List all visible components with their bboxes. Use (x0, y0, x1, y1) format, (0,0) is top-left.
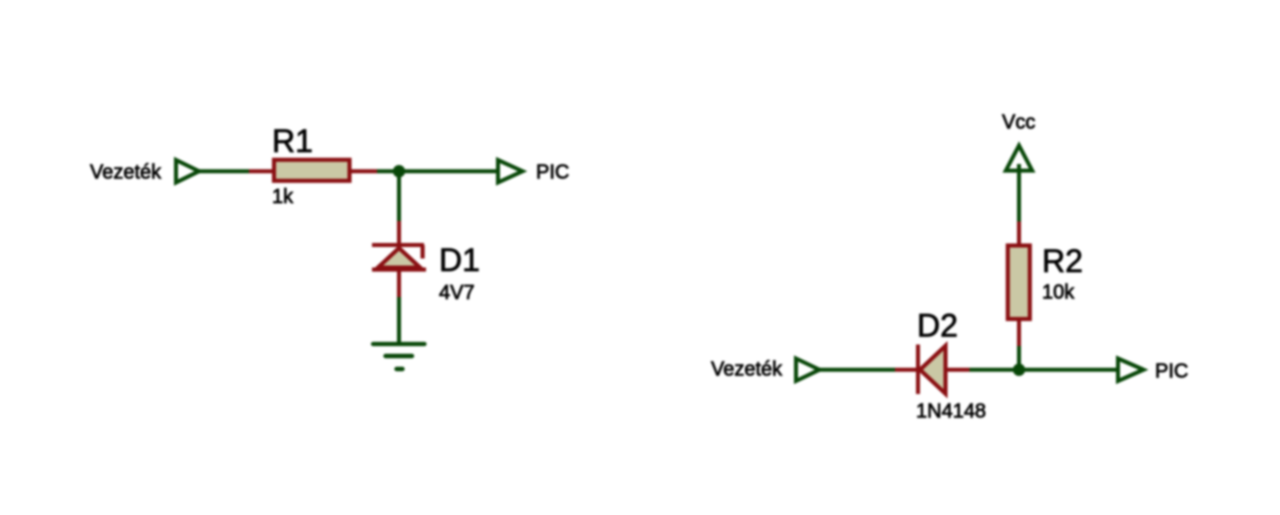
junction node right (1013, 364, 1025, 376)
resistor R1 (274, 160, 350, 181)
svg-text:1k: 1k (272, 186, 294, 208)
value 1k (272, 186, 294, 208)
wire D2 to PIC (970, 368, 1117, 372)
label R2 (1042, 243, 1083, 279)
pin lead D1 bottom (397, 272, 401, 298)
junction node left (393, 165, 405, 177)
pin terminal PIC (left circuit) (498, 160, 523, 183)
label D2 (917, 307, 958, 343)
pin lead R2 bottom (1017, 319, 1021, 346)
wire D1 to ground (397, 297, 401, 344)
pin lead R2 top (1017, 222, 1021, 247)
label D1 (439, 242, 480, 278)
pin terminal Vezeték (right circuit) (796, 359, 820, 382)
pin lead D2 left (895, 368, 917, 372)
value 10k (1042, 282, 1075, 304)
svg-text:PIC: PIC (1155, 361, 1188, 383)
wire R2 to junction (1017, 346, 1021, 370)
wire Vezeték to D2 (820, 368, 896, 372)
net label PIC (right circuit) (1155, 361, 1188, 383)
svg-text:1N4148: 1N4148 (916, 401, 986, 423)
svg-text:D2: D2 (917, 307, 958, 343)
supply symbol Vcc (1006, 146, 1032, 222)
svg-text:10k: 10k (1042, 282, 1075, 304)
svg-text:Vezeték: Vezeték (711, 359, 783, 381)
label R1 (272, 123, 313, 159)
svg-text:PIC: PIC (536, 162, 569, 184)
wire junction down to D1 (397, 171, 401, 221)
svg-text:4V7: 4V7 (439, 282, 475, 304)
pin terminal PIC (right circuit) (1118, 359, 1144, 382)
pin lead D2 right (947, 368, 970, 372)
net label Vezeték (right circuit) (711, 359, 783, 381)
svg-text:R1: R1 (272, 123, 313, 159)
ground symbol (373, 344, 425, 369)
value 4V7 (439, 282, 475, 304)
net label PIC (left circuit) (536, 162, 569, 184)
svg-text:D1: D1 (439, 242, 480, 278)
pin lead D1 top (397, 221, 401, 247)
pin lead R1 left (249, 169, 274, 173)
net label Vezeték (left circuit) (90, 162, 162, 184)
diode D2 (918, 345, 946, 395)
wire R1 to PIC (377, 169, 498, 173)
resistor R2 (1008, 246, 1030, 320)
value 1N4148 (916, 401, 986, 423)
svg-text:R2: R2 (1042, 243, 1083, 279)
pin lead R1 right (351, 169, 377, 173)
supply label Vcc (1002, 112, 1035, 134)
zener diode D1 (372, 245, 426, 270)
svg-text:Vezeték: Vezeték (90, 162, 162, 184)
pin terminal Vezeték (left circuit) (176, 160, 199, 183)
wire Vezeték to R1 (199, 169, 249, 173)
svg-text:Vcc: Vcc (1002, 112, 1035, 134)
